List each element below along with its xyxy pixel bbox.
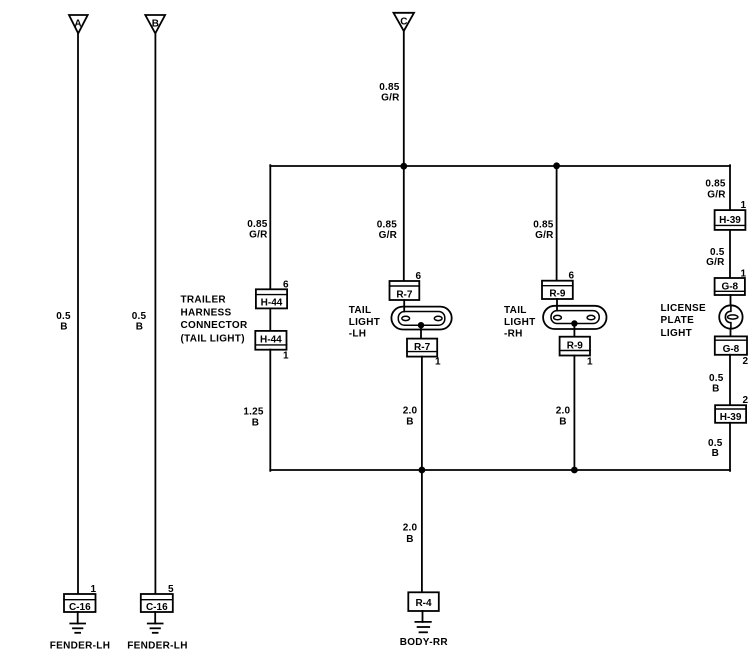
svg-text:TRAILER: TRAILER bbox=[181, 294, 227, 305]
svg-text:CONNECTOR: CONNECTOR bbox=[181, 320, 248, 331]
svg-text:1: 1 bbox=[283, 351, 289, 362]
wire trailer branch lower (1.25 B) bbox=[269, 350, 271, 471]
connector R-4 bbox=[408, 592, 439, 611]
lamp TAIL LIGHT-RH bbox=[543, 306, 606, 329]
connector H-44 upper bbox=[256, 289, 287, 308]
lamp LICENSE PLATE LIGHT bbox=[719, 305, 742, 328]
svg-text:G/R: G/R bbox=[381, 93, 400, 104]
svg-text:H-44: H-44 bbox=[260, 335, 282, 346]
wire license lamp to G-8 lower bbox=[730, 329, 732, 337]
svg-text:H-39: H-39 bbox=[720, 412, 742, 423]
svg-text:B: B bbox=[252, 418, 259, 429]
wire G-8 to license lamp bbox=[730, 295, 732, 305]
svg-text:-RH: -RH bbox=[504, 329, 523, 340]
svg-text:TAIL: TAIL bbox=[349, 305, 372, 316]
svg-text:G/R: G/R bbox=[535, 230, 554, 241]
svg-text:LICENSE: LICENSE bbox=[661, 303, 706, 314]
label TAIL LIGHT -LH bbox=[349, 305, 381, 340]
junction node bottom RH bbox=[571, 467, 578, 474]
label 0.85 G/R on trailer branch bbox=[247, 219, 268, 241]
connector triangle B bbox=[145, 15, 165, 33]
connector R-7 upper bbox=[390, 281, 420, 300]
wire H-39 to G-8 (0.5 G/R) bbox=[729, 230, 731, 278]
wire tail LH branch lower (2.0 B) bbox=[421, 357, 423, 470]
junction node bottom LH / ground branch bbox=[419, 467, 426, 474]
wire G-8 lower to H-39 lower (0.5 B) bbox=[729, 355, 731, 405]
wire C down to top bus (0.85 G/R) bbox=[403, 31, 405, 166]
label 0.5 B on wire A bbox=[56, 311, 71, 333]
label LICENSE PLATE LIGHT bbox=[661, 303, 706, 339]
label 0.85 G/R on tail LH branch bbox=[377, 220, 398, 242]
connector H-39 lower bbox=[715, 405, 746, 423]
svg-text:R-9: R-9 bbox=[549, 289, 566, 300]
svg-text:G-8: G-8 bbox=[721, 281, 738, 292]
label TRAILER HARNESS CONNECTOR (TAIL LIGHT) bbox=[181, 294, 248, 344]
label 0.5 B upper on license branch bbox=[709, 373, 724, 394]
wire H-39 lower to bottom bus (0.5 B) bbox=[729, 423, 731, 471]
connector G-8 upper bbox=[715, 278, 745, 295]
wire tail light RH bulb to R-9 lower bbox=[573, 324, 575, 337]
svg-text:C: C bbox=[400, 17, 407, 28]
wire between H-44 halves bbox=[269, 308, 271, 331]
wire tail LH branch upper (0.85 G/R) bbox=[403, 166, 405, 281]
svg-text:B: B bbox=[712, 383, 719, 394]
svg-text:G/R: G/R bbox=[707, 190, 726, 201]
svg-text:0.5: 0.5 bbox=[132, 311, 147, 322]
svg-text:2.0: 2.0 bbox=[556, 406, 571, 417]
svg-text:1: 1 bbox=[435, 357, 441, 368]
label 0.85 G/R on wire C bbox=[379, 82, 400, 104]
svg-text:0.5: 0.5 bbox=[56, 311, 71, 322]
svg-text:TAIL: TAIL bbox=[504, 305, 527, 316]
label 2.0 B on ground wire bbox=[403, 523, 418, 546]
svg-text:G/R: G/R bbox=[379, 230, 398, 241]
top bus wire bbox=[270, 165, 730, 167]
label 0.5 G/R on license branch bbox=[706, 247, 725, 268]
ground FENDER-LH (column B) bbox=[148, 612, 163, 633]
connector C-16 (column B) bbox=[141, 594, 173, 613]
junction node at tail RH branch bbox=[553, 162, 560, 169]
svg-text:PLATE: PLATE bbox=[661, 315, 695, 326]
connector H-39 upper bbox=[715, 210, 746, 230]
connector R-9 lower bbox=[560, 337, 590, 356]
junction node at C / tail LH branch bbox=[400, 163, 407, 170]
svg-text:B: B bbox=[60, 322, 67, 333]
svg-text:BODY-RR: BODY-RR bbox=[400, 637, 449, 648]
svg-text:LIGHT: LIGHT bbox=[661, 328, 693, 339]
svg-text:LIGHT: LIGHT bbox=[349, 317, 381, 328]
wire A (0.5 B, fender LH) bbox=[77, 33, 79, 594]
svg-text:2: 2 bbox=[742, 356, 748, 367]
connector R-7 lower bbox=[407, 339, 437, 357]
svg-text:0.85: 0.85 bbox=[377, 220, 398, 231]
connector triangle A bbox=[69, 15, 88, 33]
svg-text:HARNESS: HARNESS bbox=[181, 307, 232, 318]
wire trailer branch upper (0.85 G/R) bbox=[269, 165, 271, 289]
label 2.0 B on tail RH lower wire bbox=[556, 406, 571, 428]
svg-text:G-8: G-8 bbox=[723, 344, 740, 355]
svg-text:LIGHT: LIGHT bbox=[504, 317, 536, 328]
label TAIL LIGHT -RH bbox=[504, 305, 536, 340]
wire tail light LH bulb to R-7 lower bbox=[420, 325, 422, 338]
svg-text:FENDER-LH: FENDER-LH bbox=[127, 641, 187, 652]
label 0.85 G/R on tail RH branch bbox=[533, 220, 554, 242]
svg-text:B: B bbox=[559, 417, 566, 428]
svg-text:H-44: H-44 bbox=[261, 298, 283, 309]
connector G-8 lower bbox=[715, 336, 747, 354]
svg-text:A: A bbox=[74, 18, 81, 29]
wire license branch (down right side) bbox=[729, 165, 731, 210]
svg-text:2.0: 2.0 bbox=[403, 523, 418, 534]
svg-text:0.85: 0.85 bbox=[533, 220, 554, 231]
connector R-9 upper bbox=[542, 281, 573, 300]
wire tail RH branch lower (2.0 B) bbox=[573, 356, 575, 471]
wire to body ground (2.0 B) bbox=[421, 470, 423, 592]
ground BODY-RR bbox=[415, 611, 430, 632]
ground FENDER-LH (column A) bbox=[70, 612, 85, 633]
svg-text:R-7: R-7 bbox=[414, 342, 431, 353]
svg-text:B: B bbox=[406, 534, 413, 545]
label 1.25 B on trailer branch bbox=[243, 407, 264, 429]
connector H-44 lower bbox=[255, 331, 286, 350]
label 0.5 B lower on license branch bbox=[708, 438, 723, 459]
svg-text:FENDER-LH: FENDER-LH bbox=[50, 641, 110, 652]
svg-text:1: 1 bbox=[587, 357, 593, 368]
svg-text:1.25: 1.25 bbox=[243, 407, 264, 418]
svg-text:0.85: 0.85 bbox=[705, 179, 726, 190]
lamp TAIL LIGHT-LH bbox=[391, 307, 451, 330]
wire tail RH branch upper (0.85 G/R) bbox=[556, 166, 558, 281]
svg-text:-LH: -LH bbox=[349, 329, 367, 340]
svg-text:B: B bbox=[712, 448, 719, 459]
svg-text:C-16: C-16 bbox=[69, 602, 91, 613]
connector C-16 (column A) bbox=[64, 594, 96, 613]
label 2.0 B on tail LH lower wire bbox=[403, 406, 418, 428]
svg-text:B: B bbox=[406, 417, 413, 428]
wire R-9 to tail light RH bulb bbox=[556, 299, 558, 311]
svg-text:R-7: R-7 bbox=[396, 289, 413, 300]
svg-text:0.85: 0.85 bbox=[379, 82, 400, 93]
label 0.5 B on wire B bbox=[132, 311, 147, 333]
svg-text:R-4: R-4 bbox=[415, 598, 432, 609]
svg-text:2.0: 2.0 bbox=[403, 406, 418, 417]
svg-text:R-9: R-9 bbox=[567, 340, 584, 351]
svg-text:B: B bbox=[152, 18, 159, 29]
svg-text:G/R: G/R bbox=[706, 257, 725, 268]
svg-text:H-39: H-39 bbox=[719, 215, 741, 226]
svg-text:0.85: 0.85 bbox=[247, 219, 268, 230]
connector triangle C bbox=[394, 13, 415, 31]
svg-text:B: B bbox=[136, 322, 143, 333]
bottom bus wire bbox=[270, 469, 730, 471]
svg-text:C-16: C-16 bbox=[146, 602, 168, 613]
wire R-7 to tail light LH bulb bbox=[403, 300, 405, 312]
svg-text:G/R: G/R bbox=[249, 230, 268, 241]
label 0.85 G/R on license branch bbox=[705, 179, 726, 201]
wire B (0.5 B, fender LH) bbox=[154, 33, 156, 594]
svg-text:(TAIL LIGHT): (TAIL LIGHT) bbox=[181, 334, 245, 345]
